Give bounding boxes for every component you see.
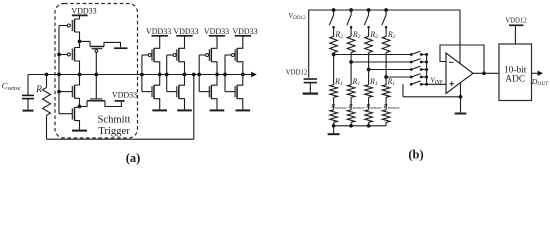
junction drain inverter 4 [241, 73, 245, 77]
ground ladder [333, 126, 335, 133]
gate wire inverter 3 [198, 55, 200, 92]
wire bottom feedback rail [47, 75, 194, 140]
ground reference wire for mux [402, 84, 404, 97]
nmos M4 schmitt [75, 75, 80, 86]
capacitor Csense [27, 75, 29, 96]
wire col 4 lower [385, 97, 387, 110]
supply bar VDD12 ADC [509, 24, 523, 26]
wire VINP to opamp plus [427, 83, 446, 85]
mux common node vertical [426, 55, 428, 85]
ground inverter 1 [152, 109, 167, 111]
pmos inverter 3 [211, 36, 217, 49]
junction top rail col 3 [367, 8, 371, 12]
nmos M5 feedback horizontal [87, 100, 105, 102]
wire feedback gates vertical [95, 52, 97, 99]
svg-text:R: R [35, 85, 42, 95]
pmos inverter 4 [237, 36, 243, 49]
wire VDD12 top rail [309, 10, 460, 78]
resistor R1 col 1 [330, 85, 338, 98]
wire ADC output arrow [532, 72, 538, 74]
pmos M2 schmitt [75, 41, 80, 47]
supply bar inverter 1 [152, 35, 168, 37]
junction top rail col 4 [384, 8, 388, 12]
resistor R [46, 75, 48, 88]
junction drain inverter 3 [215, 73, 219, 77]
nmos inverter 2 [167, 91, 177, 93]
svg-text:VDD33: VDD33 [112, 90, 137, 99]
junction bus tap col 3 [367, 68, 371, 72]
wire col 3 mid [368, 53, 370, 85]
gate wire inverter 4 [224, 55, 226, 92]
ground bar feedback pmos [114, 47, 128, 49]
junction nmos mid node [78, 105, 82, 109]
supply bar VDD33 schmitt [72, 14, 88, 16]
supply bar VDD33 feedback nmos [115, 100, 125, 102]
ground for Csense [23, 110, 34, 112]
switch S4 top [385, 10, 387, 15]
ground schmitt [72, 130, 87, 132]
wire col 1 mid [333, 53, 335, 85]
gate wire inverter 2 [166, 55, 168, 92]
svg-text:(a): (a) [126, 151, 141, 165]
svg-text:VDD33: VDD33 [204, 27, 229, 36]
op-amp U1 [446, 53, 473, 94]
junction schmitt output node [78, 73, 82, 77]
switch S2 top [350, 10, 352, 15]
svg-text:ADC: ADC [505, 75, 525, 85]
resistor Rsensor col 1 [330, 110, 338, 123]
ground inverter 3 [210, 109, 225, 111]
pmos M1 schmitt top [75, 15, 80, 19]
svg-text:VDD12: VDD12 [286, 70, 308, 77]
resistor R2 col 1 [330, 36, 338, 52]
junction top rail col 2 [349, 8, 353, 12]
switch S1 top [333, 10, 335, 15]
bottom rail figure b [334, 125, 387, 127]
output arrow figure a [243, 74, 252, 76]
node input wire y74.5 [28, 74, 251, 76]
wire col 2 lower [350, 97, 352, 110]
junction feedback tap on signal rail [192, 73, 196, 77]
supply bar inverter 2 [176, 35, 192, 37]
junction R top [45, 73, 49, 77]
resistor R2 col 4 [382, 36, 390, 52]
bus wires to mux [334, 54, 412, 56]
svg-text:VDD33: VDD33 [232, 27, 257, 36]
resistor R2 col 2 [347, 36, 355, 52]
resistor R1 col 2 [347, 85, 355, 98]
pmos inverter 1 [154, 36, 160, 49]
schmitt input gate bus [58, 26, 60, 114]
svg-text:(b): (b) [408, 148, 423, 162]
wire col 2 mid [350, 53, 352, 85]
wire opamp feedback [440, 45, 484, 73]
wire col 4 mid [385, 53, 387, 85]
svg-text:Rsensor: Rsensor [348, 103, 365, 110]
junction drain inverter 2 [183, 73, 187, 77]
svg-text:Rsensor: Rsensor [383, 103, 400, 110]
svg-text:VDD33: VDD33 [173, 27, 198, 36]
resistor R1 col 3 [365, 85, 373, 98]
svg-text:VDD12: VDD12 [505, 18, 527, 25]
junction bus tap col 2 [349, 60, 353, 64]
wire opamp output [473, 72, 499, 74]
ground inverter 2 [177, 109, 192, 111]
resistor R1 col 4 [382, 85, 390, 98]
gate wire inverter 1 [141, 55, 143, 92]
dashed box around Schmitt trigger cell [55, 4, 138, 139]
supply bar inverter 4 [235, 35, 251, 37]
box 10-bit ADC [499, 44, 532, 101]
svg-text:Trigger: Trigger [98, 126, 130, 137]
nmos M6 schmitt bottom [75, 106, 80, 109]
junction bus tap col 4 [384, 75, 388, 79]
svg-text:Schmitt: Schmitt [98, 115, 131, 126]
svg-text:VDD33: VDD33 [71, 6, 96, 15]
junction pmos mid node [78, 40, 82, 44]
svg-text:Rsensor: Rsensor [365, 103, 382, 110]
pmos M3 feedback horizontal [80, 41, 91, 46]
nmos inverter 4 [225, 91, 235, 93]
wire opamp vss [460, 83, 462, 113]
wire col 3 lower [368, 97, 370, 110]
resistor Rsensor col 4 [382, 110, 390, 123]
mux switches right [410, 53, 413, 56]
resistor Rsensor col 2 [347, 110, 355, 123]
junction drain inverter 1 [158, 73, 162, 77]
nmos inverter 3 [199, 91, 209, 93]
junction bus tap col 1 [332, 53, 336, 57]
ground inverter 4 [236, 109, 251, 111]
pmos inverter 2 [179, 36, 185, 49]
wire col 1 lower [333, 97, 335, 110]
switch S3 top [368, 10, 370, 15]
capacitor decoupling VDD12 [304, 78, 317, 80]
resistor Rsensor col 3 [365, 110, 373, 123]
nmos inverter 1 [142, 91, 152, 93]
ground decoupling cap [303, 92, 318, 94]
svg-text:Rsensor: Rsensor [330, 103, 347, 110]
resistor R2 col 3 [365, 36, 373, 52]
supply bar inverter 3 [209, 35, 225, 37]
junction top rail col 1 [332, 8, 336, 12]
ground opamp [455, 113, 467, 115]
svg-text:VDD33: VDD33 [146, 27, 171, 36]
